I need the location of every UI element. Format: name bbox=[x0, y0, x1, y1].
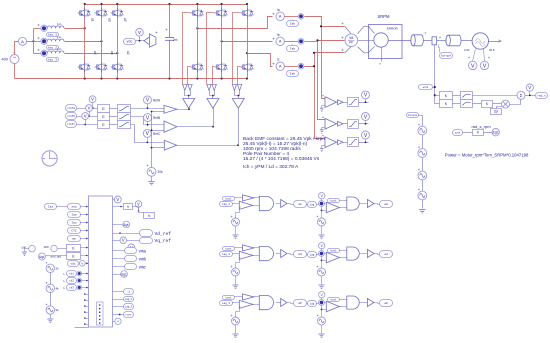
limiter block i1 bbox=[348, 98, 359, 107]
wire to limiter 1 bbox=[344, 102, 348, 104]
not gate leg 2 bbox=[207, 99, 219, 109]
limiter block b bbox=[118, 113, 131, 121]
wire to K gains bbox=[435, 95, 440, 97]
svg-text:L: L bbox=[64, 279, 66, 283]
svg-text:T: T bbox=[425, 32, 427, 36]
svg-text:&gt;: &gt; bbox=[121, 272, 127, 276]
svg-text:bost: bost bbox=[225, 296, 232, 299]
inductor L1 1m bbox=[47, 26, 64, 28]
ground row a1 left bbox=[233, 235, 239, 238]
wire boost to upper comparator a3 bbox=[235, 247, 243, 249]
svg-text:Ic: Ic bbox=[277, 58, 280, 62]
svg-text:V: V bbox=[91, 97, 94, 102]
wire carrier row a4 ground bbox=[321, 277, 323, 285]
wire carrier to pwmA bbox=[152, 111, 165, 113]
ammeter Ic bbox=[276, 62, 284, 70]
mosfet Q12 bottom bbox=[247, 62, 249, 72]
svg-text:vrefb: vrefb bbox=[67, 114, 75, 118]
wire branch 2 stub bbox=[34, 41, 41, 43]
label Iaa bbox=[45, 204, 57, 210]
gate wire upper switch leg 2 bbox=[207, 13, 215, 85]
svg-text:ERROR: ERROR bbox=[387, 27, 399, 31]
buffer U ibuf2 bbox=[338, 121, 344, 126]
voltage probe load V1 bbox=[473, 49, 476, 62]
svg-text:rad_s: rad_s bbox=[537, 94, 546, 98]
scope probe rpm_rad bbox=[38, 253, 45, 260]
svg-text:Iq: Iq bbox=[148, 214, 151, 218]
gate wire upper switch leg 1 bbox=[183, 13, 191, 85]
current probe row a2 bbox=[319, 201, 325, 207]
svg-text:n: n bbox=[379, 62, 381, 66]
wire Lst3 to controller bbox=[82, 287, 89, 289]
svg-text:rad_s_rpm: rad_s_rpm bbox=[471, 124, 491, 129]
svg-text:V: V bbox=[122, 238, 125, 243]
comparator U ca2 bbox=[326, 202, 339, 213]
svg-text:&gt;: &gt; bbox=[39, 255, 45, 259]
wire DC- bottom rail bbox=[15, 78, 248, 80]
label block a5 bbox=[294, 300, 307, 307]
wire vrefa to E bbox=[77, 108, 98, 110]
wire carrier row a2 ground bbox=[321, 227, 323, 235]
wire Lag_2 to lower comparator a3 bbox=[233, 253, 240, 255]
svg-text:Lag: Lag bbox=[310, 253, 315, 256]
svg-text:bost: bost bbox=[330, 298, 337, 301]
carrier source row a5 left bbox=[232, 317, 240, 325]
svg-text:V: V bbox=[483, 63, 487, 69]
voltage probe i2 bbox=[362, 113, 370, 121]
svg-text:a6: a6 bbox=[110, 51, 114, 55]
label boost a3 bbox=[223, 247, 235, 251]
and gate U ga2 bbox=[347, 197, 359, 210]
label vrefa bbox=[66, 105, 77, 112]
wire lower comparator to and a1 bbox=[253, 205, 260, 207]
carrier source row a1 left bbox=[232, 218, 240, 226]
back-emf source bac2 bbox=[37, 37, 39, 39]
voltage probe vref V2 bbox=[86, 105, 93, 112]
label block vmb bbox=[125, 256, 137, 262]
label boost a4 bbox=[328, 249, 340, 253]
machine rotor circle bbox=[374, 33, 388, 47]
wire probe to comparator a6 bbox=[325, 302, 327, 304]
svg-text:Iab: Iab bbox=[290, 22, 296, 26]
wire summer to rad_s bbox=[526, 95, 536, 97]
wire controller bottom stub bbox=[75, 327, 89, 329]
voltage probe out V3 bbox=[120, 237, 127, 244]
svg-text:15.27 / (4 * 104.7198) = 0.036: 15.27 / (4 * 104.7198) = 0.03645 Vs bbox=[243, 156, 320, 162]
label Lag_1 in bbox=[220, 202, 233, 207]
input block CTZ bbox=[68, 228, 81, 234]
svg-text:L: L bbox=[64, 272, 66, 276]
node bottom rail junction bbox=[100, 77, 102, 79]
gain K3 bbox=[482, 101, 493, 108]
svg-text:bost: bost bbox=[330, 199, 337, 202]
voltage probe out V2 bbox=[135, 201, 142, 208]
wire Ia to wattmeter and comparator bbox=[305, 17, 326, 99]
svg-text:&gt;: &gt; bbox=[123, 223, 129, 227]
ground row a5 left bbox=[233, 334, 239, 337]
wire Lag_2 to probe a4 bbox=[317, 254, 319, 255]
wire to limiter 2 bbox=[344, 123, 348, 125]
wire divider2 to gain K3 bbox=[473, 103, 482, 105]
and gate U ga1 bbox=[259, 196, 273, 210]
svg-text:180: 180 bbox=[44, 245, 49, 249]
back-emf source bac3 bbox=[37, 49, 39, 51]
wire load phase B bbox=[65, 41, 102, 43]
wire shaft 2 bbox=[424, 40, 433, 42]
label vrefc bbox=[66, 121, 77, 128]
label block none bbox=[124, 312, 134, 318]
not gate leg 3 bbox=[232, 99, 244, 109]
step source T4 bbox=[418, 191, 427, 200]
wire pwmB out bbox=[178, 108, 214, 127]
gain K4 bbox=[473, 130, 484, 136]
comparator U cla3 bbox=[239, 251, 253, 259]
svg-text:1m: 1m bbox=[57, 35, 62, 39]
svg-text:20k: 20k bbox=[158, 170, 164, 174]
mosfet Q10 bottom bbox=[197, 62, 199, 72]
wire multiplier to summer bbox=[510, 100, 521, 105]
wire comparator to and a2 bbox=[340, 207, 347, 209]
wire Iaa to zoa bbox=[57, 206, 68, 208]
wire K3 to multiplier bbox=[493, 103, 502, 105]
voltage probe i1 bbox=[362, 91, 370, 99]
wire bridge1 leg 1 bbox=[84, 5, 86, 9]
simulation clock bbox=[42, 151, 57, 166]
svg-text:2k: 2k bbox=[56, 308, 60, 312]
wire buffer to a1 bbox=[288, 204, 294, 205]
node phase tap bbox=[116, 52, 118, 54]
wire boost to and a6 bbox=[340, 299, 347, 301]
ground row a6 bbox=[319, 334, 325, 337]
svg-text:V: V bbox=[84, 114, 87, 119]
svg-text:a2: a2 bbox=[384, 203, 388, 206]
wire vrefb to E bbox=[77, 116, 98, 118]
interface pennant vdc bbox=[149, 34, 156, 47]
carrier source row a3 left bbox=[232, 268, 240, 276]
wire upper comparator to and a5 bbox=[254, 296, 260, 298]
label boost a5 bbox=[223, 296, 235, 300]
wire bridge2 leg 3 bbox=[247, 5, 249, 9]
wire boost to upper comparator a5 bbox=[235, 296, 243, 298]
wire Lag_1 to lower comparator a1 bbox=[233, 203, 240, 205]
wire bridge2 leg 2 bbox=[221, 5, 223, 9]
label block a3 bbox=[294, 251, 307, 258]
wire K2 to divider2 bbox=[453, 103, 461, 105]
wire speed sense vertical bbox=[434, 45, 436, 104]
wire divider1 to summer bbox=[473, 95, 518, 97]
node gate input leg 2 bbox=[212, 95, 214, 97]
voltage probe RefB bbox=[144, 114, 152, 122]
comparator U cla5 bbox=[239, 300, 253, 308]
inductor L3 1m bbox=[47, 51, 64, 53]
current probe Ib sensor bbox=[285, 41, 299, 43]
scope probe out 1 bbox=[123, 221, 130, 228]
svg-text:L: L bbox=[64, 286, 66, 290]
svg-text:st1: st1 bbox=[69, 272, 74, 275]
ground carrier bbox=[151, 177, 153, 182]
comparator U cla1 bbox=[239, 201, 253, 209]
and gate U ga3 bbox=[259, 246, 273, 260]
ground row a2 bbox=[319, 235, 325, 238]
voltage probe row a6 bbox=[319, 292, 325, 298]
label block Lag_2 mid bbox=[308, 252, 317, 258]
wire limiter 2 out bbox=[359, 123, 369, 125]
ground row a4 bbox=[319, 285, 325, 288]
wire lower comparator to and a3 bbox=[253, 255, 260, 257]
sine source 2k a bbox=[46, 264, 54, 272]
wire boost to and a4 bbox=[340, 250, 347, 252]
label block vma bbox=[125, 248, 137, 254]
svg-text:Iac: Iac bbox=[71, 222, 76, 225]
node top rail junction bbox=[246, 3, 248, 5]
node top rail junction bbox=[116, 3, 118, 5]
svg-text:V: V bbox=[528, 85, 531, 90]
wire Iac to controller bbox=[81, 222, 89, 224]
wire Lag_3 to probe a6 bbox=[317, 303, 319, 304]
wire Ic to wattmeter and comparator bbox=[305, 53, 315, 67]
step source T1 bbox=[418, 126, 427, 135]
wire K4 to scope bbox=[484, 132, 493, 134]
wire Iab to controller bbox=[81, 214, 89, 216]
svg-text:4k: 4k bbox=[56, 287, 60, 291]
and gate U ga6 bbox=[347, 296, 359, 309]
svg-text:torque: torque bbox=[441, 55, 451, 58]
svg-text:VA: VA bbox=[349, 36, 354, 40]
speed sensor block bbox=[432, 37, 437, 45]
wire CTZ to controller bbox=[81, 230, 89, 232]
svg-text:bac 2: bac 2 bbox=[48, 46, 57, 50]
voltage probe RefA bbox=[144, 96, 152, 104]
label block a6 bbox=[380, 300, 393, 307]
node phase tap bbox=[100, 40, 102, 42]
mosfet Q7 top bbox=[197, 8, 199, 18]
svg-text:A: A bbox=[279, 40, 282, 44]
wire carrier to pwmC bbox=[152, 147, 165, 149]
node phase tap bbox=[196, 27, 198, 29]
multiplier U mult bbox=[502, 100, 510, 108]
on-off controller pair leg 1 bbox=[183, 84, 193, 90]
svg-text:a5: a5 bbox=[298, 302, 302, 305]
comparator U cua5 bbox=[243, 294, 254, 300]
buffer U ba3 bbox=[281, 250, 287, 258]
label vdc bbox=[124, 39, 136, 45]
svg-text:Lag_3: Lag_3 bbox=[222, 302, 230, 305]
wire probe to comparator a4 bbox=[325, 253, 327, 255]
comparator U pwmA bbox=[164, 105, 177, 113]
label boost a2 bbox=[328, 199, 340, 203]
svg-text:RefC: RefC bbox=[153, 132, 161, 136]
controller inner pin rect bbox=[97, 302, 104, 325]
on-off controller pair leg 2 bbox=[207, 84, 217, 90]
mosfet Q6 bottom (gate a2) bbox=[117, 62, 119, 72]
svg-text:Vd_ref: Vd_ref bbox=[155, 231, 172, 237]
label block Lag_2 bbox=[124, 297, 134, 302]
label block a1 bbox=[294, 201, 307, 208]
label bac_1 bbox=[47, 33, 59, 37]
gain block E1 (180) bbox=[67, 245, 81, 252]
gain block E2 (rpm_rad) bbox=[67, 253, 81, 260]
wire torque chain bbox=[419, 116, 423, 209]
wire Lst1 to controller bbox=[82, 273, 89, 275]
svg-text:a1: a1 bbox=[91, 18, 95, 22]
label block Lag_1 mid bbox=[308, 202, 317, 208]
label Id bbox=[124, 204, 133, 210]
wire machine phase stubs bbox=[369, 27, 375, 34]
svg-text:zoa: zoa bbox=[71, 206, 76, 209]
svg-text:FF: FF bbox=[349, 41, 353, 45]
node branch junction bbox=[32, 40, 34, 42]
wire carrier riser bbox=[151, 112, 153, 168]
limiter block c bbox=[118, 121, 131, 129]
scope probe rpm bbox=[492, 129, 499, 136]
current probe row a4 bbox=[319, 251, 325, 257]
ground torque chain bbox=[419, 210, 426, 213]
node gate input leg 1 bbox=[188, 95, 190, 97]
ammeter Ia bbox=[276, 12, 284, 20]
wire pair to not gate leg 1 bbox=[185, 91, 191, 96]
comparator U cua1 bbox=[243, 195, 254, 201]
wire shaft 3 bbox=[437, 40, 447, 42]
wire and to buffer a6 bbox=[360, 302, 368, 304]
not gate leg 1 bbox=[183, 99, 195, 109]
wire and to buffer a5 bbox=[276, 302, 281, 304]
svg-text:Iab: Iab bbox=[290, 47, 296, 51]
svg-text:Lag: Lag bbox=[310, 302, 315, 305]
wire and to buffer a1 bbox=[276, 203, 281, 205]
comparator U pwmB bbox=[164, 121, 177, 132]
comparator U pwmC bbox=[164, 140, 176, 150]
and gate U ga4 bbox=[347, 247, 359, 260]
node top rail junction bbox=[84, 3, 86, 5]
buffer U ba1 bbox=[281, 200, 287, 208]
svg-text:Lag_2: Lag_2 bbox=[222, 253, 230, 256]
svg-text:1m: 1m bbox=[57, 47, 62, 51]
node bottom rail junction bbox=[116, 77, 118, 79]
voltage probe i3 bbox=[362, 131, 370, 139]
wire Lag_1 to probe a2 bbox=[317, 204, 319, 205]
wire carrier tap a4 bbox=[321, 257, 323, 269]
sine source 4k bbox=[46, 284, 54, 292]
sine source 2k b bbox=[46, 306, 54, 314]
limiter block i2 bbox=[348, 120, 359, 129]
wire shaft 4 bbox=[462, 40, 473, 42]
svg-text:a1: a1 bbox=[298, 203, 302, 206]
label block J1 bbox=[124, 289, 134, 295]
node bottom rail junction bbox=[84, 77, 86, 79]
wire and to buffer a2 bbox=[360, 203, 368, 205]
wire source to ammeter bbox=[15, 42, 19, 55]
wire buffer to a4 bbox=[375, 254, 380, 255]
svg-text:Lag: Lag bbox=[310, 203, 315, 206]
wire limiter c to comparator 3 bbox=[131, 125, 165, 143]
svg-text:rpm_rad: rpm_rad bbox=[51, 255, 62, 259]
voltage probe V vdc bbox=[136, 29, 144, 37]
wire controller lower stubs bbox=[85, 294, 89, 296]
wire DC+ top rail bbox=[85, 4, 248, 6]
wire to Id bbox=[113, 206, 124, 208]
svg-text:A: A bbox=[21, 39, 24, 44]
mosfet Q3 top (gate a5) bbox=[117, 8, 119, 18]
label torque sensor bbox=[440, 53, 453, 59]
svg-text:E: E bbox=[102, 123, 105, 127]
node phase tap bbox=[84, 27, 86, 29]
label Iq bbox=[144, 213, 155, 219]
svg-text:vdc: vdc bbox=[127, 40, 133, 44]
label w/m 2 bbox=[453, 130, 463, 136]
wire load phase A bbox=[65, 28, 85, 30]
voltage probe out V1 bbox=[114, 196, 121, 203]
comparator U ca6 bbox=[326, 301, 339, 312]
node top rail junction bbox=[221, 3, 223, 5]
node bottom rail junction bbox=[221, 77, 223, 79]
node bottom rail junction bbox=[196, 77, 198, 79]
svg-text:42.8: 42.8 bbox=[489, 48, 495, 52]
wire E to limiter bbox=[110, 124, 118, 126]
svg-text:400: 400 bbox=[2, 58, 8, 62]
svg-text:vrefc: vrefc bbox=[67, 122, 75, 126]
svg-text:st3: st3 bbox=[69, 286, 74, 289]
svg-text:E: E bbox=[102, 107, 105, 111]
voltage probe row a2 bbox=[319, 193, 325, 199]
wire shaft out bbox=[489, 41, 501, 43]
wire pair to not gate leg 3 bbox=[235, 91, 240, 96]
voltage probe load V2 bbox=[484, 49, 485, 62]
and gate U ga5 bbox=[259, 295, 273, 309]
ammeter A1 bbox=[19, 37, 27, 45]
voltage probe vdc in bbox=[79, 260, 85, 266]
wire vrefc to E bbox=[77, 124, 98, 126]
svg-text:vmb: vmb bbox=[139, 258, 147, 263]
gate wire lower switch leg 2 bbox=[213, 67, 215, 85]
svg-text:vdc: vdc bbox=[70, 262, 75, 266]
wire limiter b to comparator 2 bbox=[131, 117, 165, 125]
svg-text:V: V bbox=[116, 197, 119, 202]
wire carrier tap a2 bbox=[321, 207, 323, 219]
summer U sum bbox=[517, 91, 525, 99]
svg-text:wm: wm bbox=[72, 238, 76, 241]
buffer U ba5 bbox=[281, 299, 287, 307]
node gate input leg 3 bbox=[237, 95, 239, 97]
wire and to buffer a4 bbox=[360, 253, 368, 255]
svg-text:Vq_ref: Vq_ref bbox=[155, 238, 172, 244]
wire w/m to junction bbox=[433, 87, 435, 89]
svg-text:bost: bost bbox=[330, 249, 337, 252]
wire carrier to pwmB bbox=[152, 130, 165, 132]
limiter block a bbox=[118, 105, 131, 113]
svg-text:E: E bbox=[102, 115, 105, 119]
wire shaft bbox=[389, 40, 411, 42]
wire E to limiter bbox=[110, 108, 118, 110]
wire K1 to divider1 bbox=[453, 95, 461, 97]
back-emf source bac1 bbox=[37, 24, 39, 26]
svg-text:Iab: Iab bbox=[71, 213, 76, 217]
label vdc 2 bbox=[68, 261, 79, 267]
label Lag_2 in bbox=[220, 252, 233, 257]
dc source V1 400V bbox=[10, 55, 19, 64]
label block a2 bbox=[380, 201, 393, 208]
gate wire upper switch leg 3 bbox=[233, 13, 241, 85]
svg-text:+: + bbox=[117, 320, 119, 324]
node top rail junction bbox=[196, 3, 198, 5]
wire probe to comparator a2 bbox=[325, 203, 327, 205]
mosfet Q8 top bbox=[221, 8, 223, 18]
node top rail junction bbox=[100, 3, 102, 5]
voltage probe RefC bbox=[143, 129, 151, 137]
wire boost to upper comparator a1 bbox=[235, 197, 243, 199]
label torque 2 bbox=[407, 113, 419, 118]
wire wm to controller bbox=[81, 238, 89, 240]
voltage probe vref V1 bbox=[89, 96, 96, 103]
